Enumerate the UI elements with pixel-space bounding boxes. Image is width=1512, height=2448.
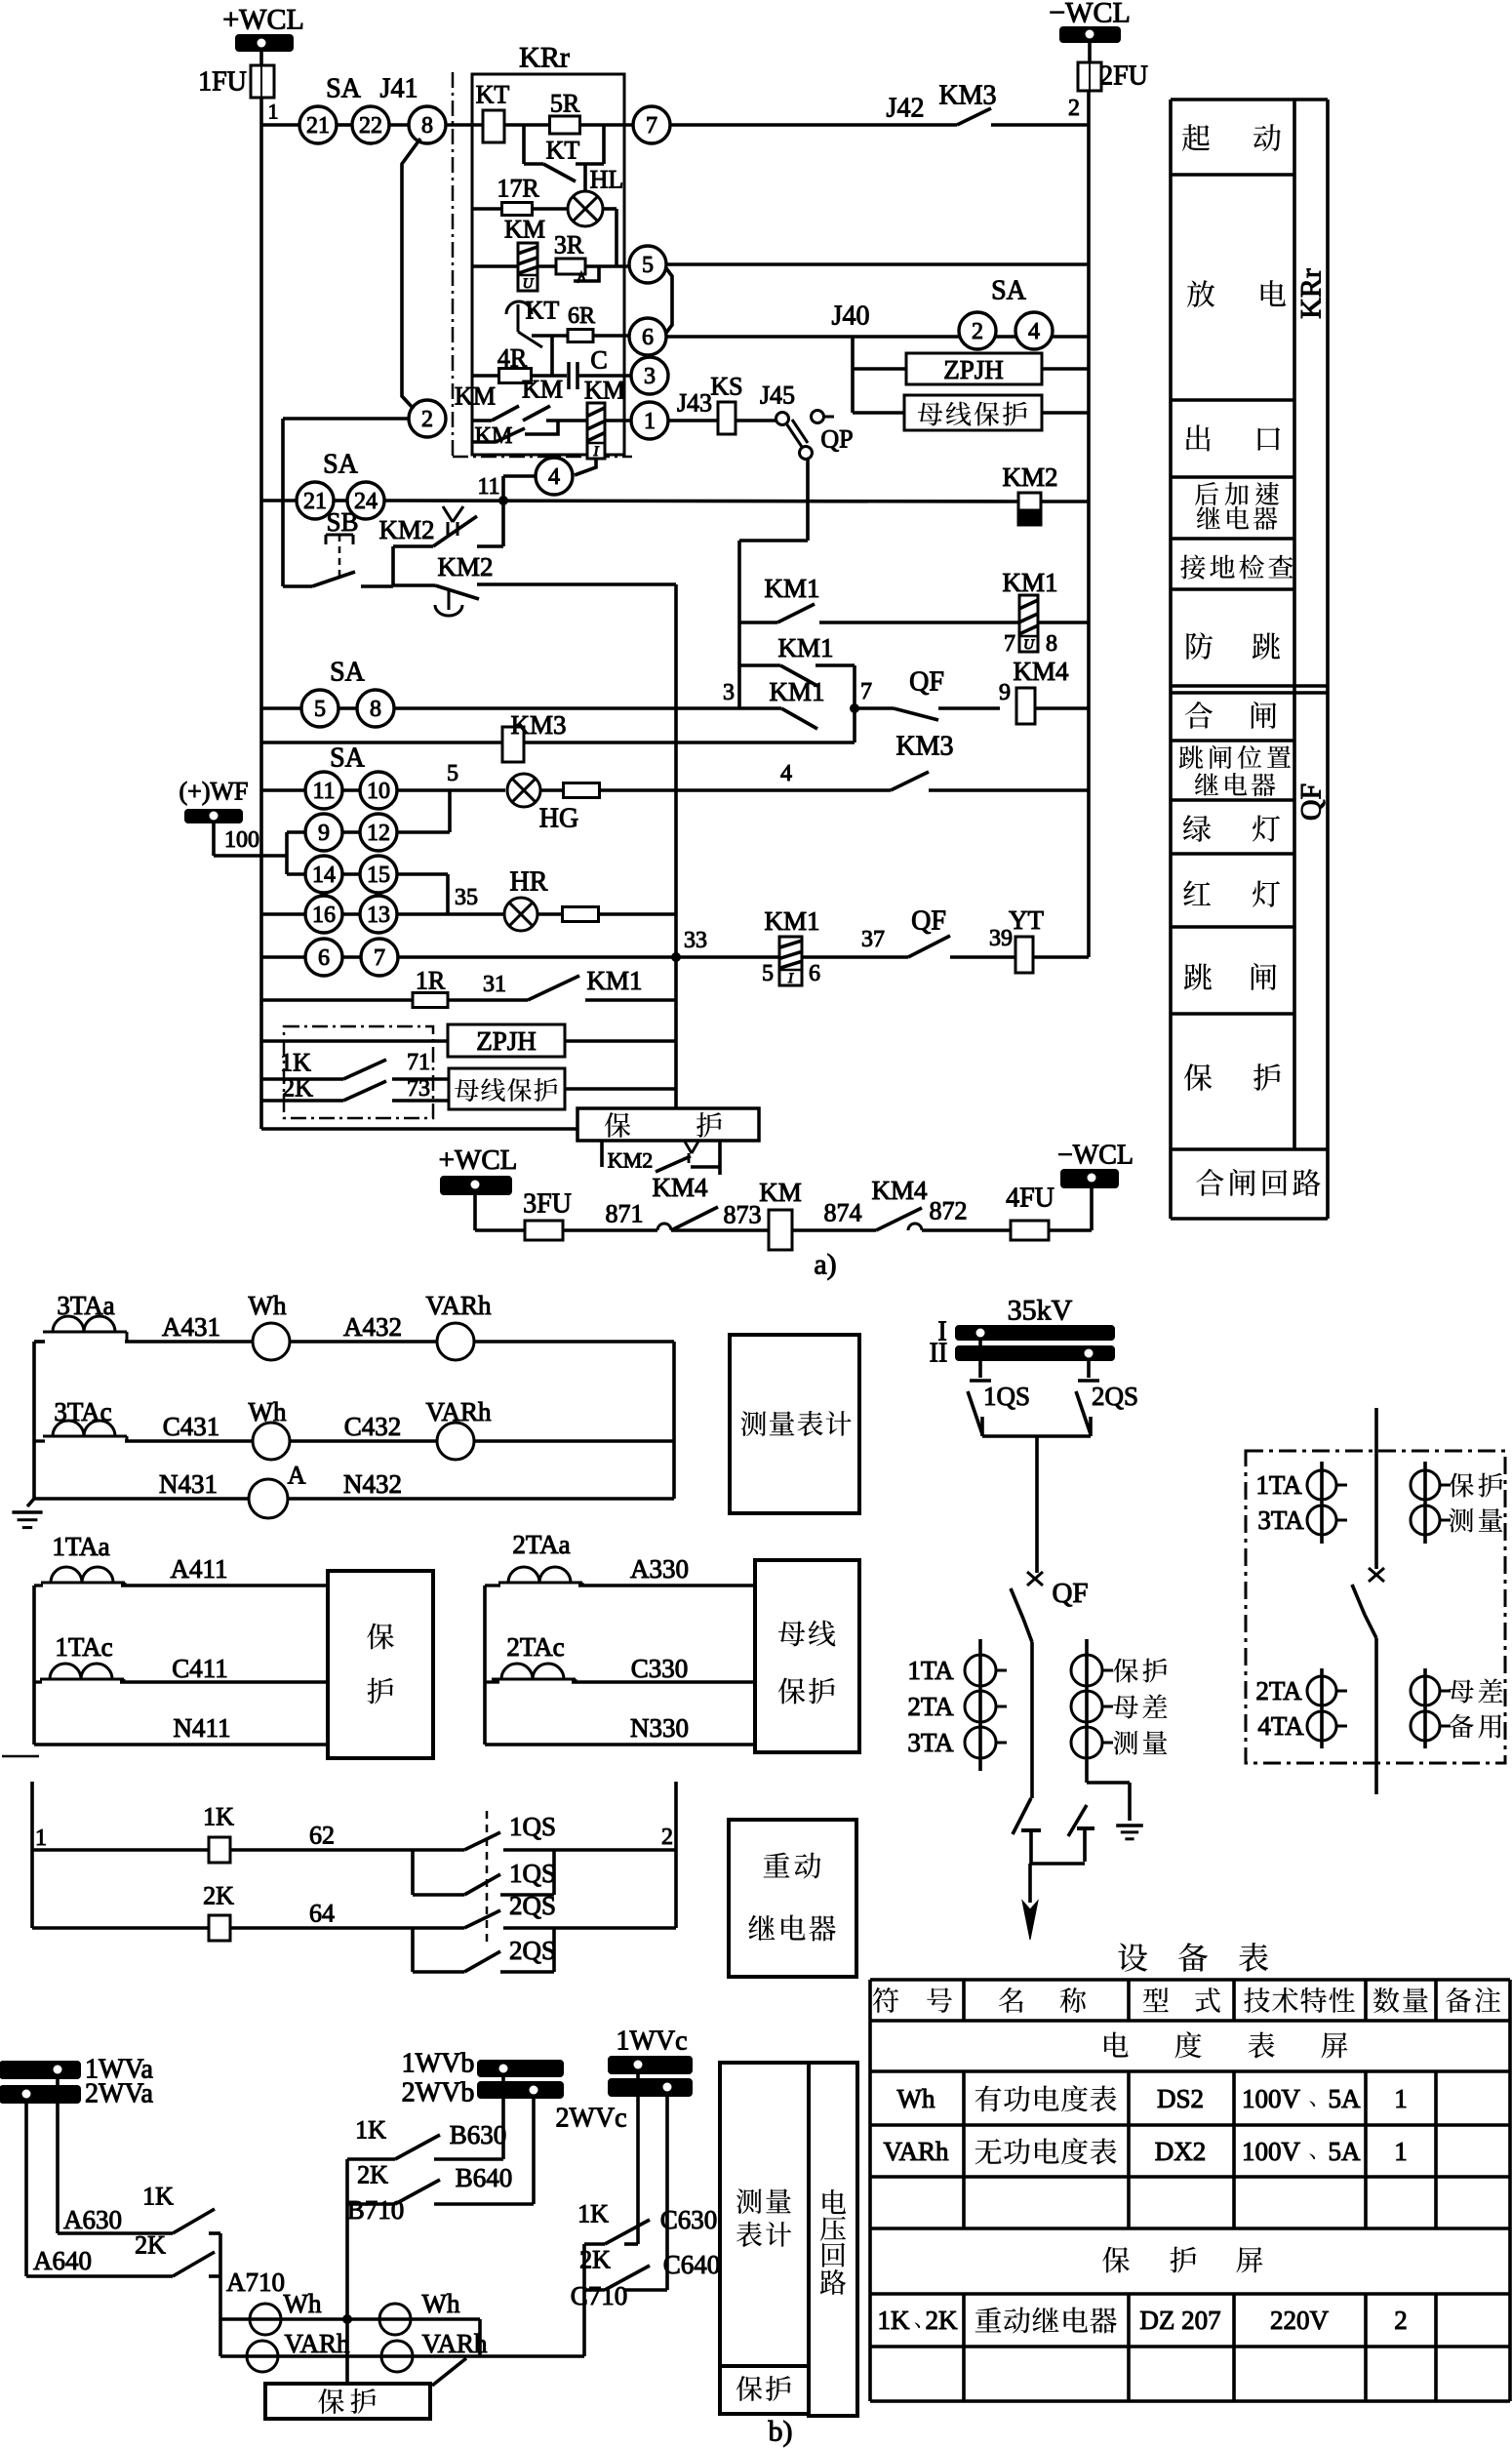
box busbar protection (b)	[755, 1560, 859, 1752]
bus 1WVa	[0, 2062, 80, 2078]
svg-text:1: 1	[35, 1826, 47, 1851]
svg-text:VARh: VARh	[421, 2329, 488, 2358]
wire to KM1 current coil	[676, 955, 779, 959]
wire A630	[56, 2078, 60, 2233]
svg-text:A640: A640	[33, 2246, 92, 2275]
svg-text:4TA: 4TA	[1257, 1711, 1304, 1741]
svg-text:KM2: KM2	[1002, 462, 1057, 492]
CT 1TA/3TA (spare)	[1320, 1462, 1324, 1544]
wire 6R row to C row	[550, 336, 554, 376]
svg-text:C: C	[590, 346, 607, 375]
contact KM2 latch lower	[393, 583, 435, 587]
device table grid	[870, 1980, 1510, 2401]
wire to -WCL	[1049, 1228, 1092, 1232]
svg-text:VARh: VARh	[284, 2329, 350, 2358]
earth switch (feeder)	[1013, 1798, 1031, 1834]
svg-text:64: 64	[309, 1900, 335, 1928]
svg-text:VARh: VARh	[883, 2137, 949, 2166]
bus 2WVb	[478, 2082, 563, 2098]
svg-text:KM4: KM4	[871, 1176, 928, 1205]
earthing branch	[1087, 1781, 1130, 1785]
svg-text:C411: C411	[172, 1654, 228, 1683]
relay coil KM1 (I) trip	[779, 937, 802, 985]
contact KM3 (green lamp row)	[891, 772, 929, 790]
bracket 9/14	[285, 832, 289, 874]
switch SA contact 6	[305, 939, 342, 976]
table row trip position relay	[1179, 745, 1204, 769]
switch SA contact 10	[360, 772, 397, 809]
table row green lamp	[1183, 815, 1211, 842]
switch SA contact 11	[305, 772, 342, 809]
svg-text:KT: KT	[546, 137, 580, 165]
relay box busbar-protection	[904, 395, 1042, 430]
wire to ZPJH	[853, 367, 906, 371]
relay coil KM1 (U)	[1019, 595, 1038, 652]
svg-text:35kV: 35kV	[1008, 1295, 1073, 1327]
svg-text:1K: 1K	[203, 1803, 234, 1831]
svg-text:100: 100	[224, 827, 259, 853]
disconnector 2QS (single line)	[1087, 1360, 1091, 1378]
svg-text:A431: A431	[162, 1312, 220, 1342]
wire A330 row	[485, 1584, 500, 1586]
svg-text:13: 13	[367, 903, 390, 928]
feeder arrow	[1028, 1864, 1032, 1903]
device table section protection panel	[1102, 2247, 1130, 2273]
svg-text:QF: QF	[909, 667, 944, 698]
wire 15 down to 35	[446, 874, 450, 914]
switch SA contact 4	[1015, 312, 1053, 349]
wire to bus	[1042, 411, 1089, 415]
lamp HL	[568, 191, 603, 226]
bus 2WVa	[0, 2086, 80, 2103]
switch SA contact 8	[357, 690, 394, 727]
contact 2QS aux	[411, 1928, 415, 1972]
contact 1QS aux	[411, 1850, 415, 1895]
svg-text:7: 7	[374, 945, 385, 971]
contact KM1 parallel upper	[740, 663, 780, 667]
svg-text:1TAa: 1TAa	[52, 1532, 109, 1561]
svg-text:6R: 6R	[568, 303, 595, 329]
relay coil KM (bottom)	[769, 1210, 792, 1250]
svg-text:KRr: KRr	[519, 42, 570, 74]
wire row1 to KM3	[670, 123, 957, 127]
left loop verticals	[32, 1342, 36, 1499]
svg-text:+WCL: +WCL	[222, 4, 304, 36]
svg-text:KM2: KM2	[437, 552, 493, 582]
CT 2TA/4TA (spare)	[1320, 1668, 1324, 1748]
svg-text:KM4: KM4	[652, 1173, 708, 1202]
svg-text:871: 871	[606, 1200, 644, 1228]
switch SA contact 5	[301, 690, 338, 727]
svg-text:4: 4	[1028, 319, 1040, 344]
resistor (HR)	[537, 912, 562, 916]
wire	[473, 1194, 477, 1230]
svg-text:KM3: KM3	[510, 710, 566, 740]
svg-text:2K: 2K	[357, 2161, 388, 2189]
wire to ZPJH 2	[261, 1039, 448, 1043]
relay 2K	[32, 1926, 209, 1930]
svg-text:KM: KM	[522, 376, 563, 404]
wire N330 row	[485, 1743, 755, 1746]
bus -WCL (bottom)	[1061, 1170, 1118, 1187]
fuse 3FU	[525, 1221, 563, 1240]
svg-text:Wh: Wh	[249, 1291, 287, 1320]
wire C330 row	[485, 1680, 499, 1683]
svg-text:11: 11	[312, 779, 335, 804]
svg-text:1FU: 1FU	[198, 67, 247, 98]
relay coil KM4	[1016, 688, 1035, 724]
contact 1QS main	[464, 1832, 500, 1850]
switch SA contact 9	[287, 830, 305, 834]
svg-text:7: 7	[860, 679, 872, 704]
box voltage circuit column	[809, 2063, 857, 2416]
breaker (spare, single line)	[1369, 1568, 1384, 1582]
svg-text:71: 71	[407, 1050, 430, 1075]
ground (measuring loop)	[27, 1499, 34, 1506]
svg-text:A710: A710	[226, 2267, 285, 2297]
svg-text:1: 1	[1394, 2084, 1408, 2113]
panel boundary mark	[2, 1755, 39, 1758]
svg-text:N330: N330	[630, 1713, 689, 1743]
left bus wire	[259, 98, 263, 1129]
wire SA6/7 row	[261, 955, 305, 959]
svg-text:21: 21	[303, 489, 327, 514]
contact KT time-delay	[506, 301, 532, 314]
wire 3R tap loop	[574, 267, 599, 281]
svg-text:U: U	[1023, 637, 1035, 653]
svg-text:8: 8	[421, 113, 433, 139]
svg-text:1K: 1K	[142, 2183, 174, 2211]
svg-text:1WVc: 1WVc	[616, 2027, 687, 2057]
svg-text:KM1: KM1	[764, 906, 819, 936]
svg-text:II: II	[930, 1339, 948, 1369]
svg-text:SA: SA	[323, 450, 359, 480]
svg-text:2: 2	[972, 319, 983, 344]
wire terminal 8 down to terminal 2	[402, 139, 420, 409]
svg-text:9: 9	[318, 821, 330, 846]
wire coil to terminal 1	[605, 419, 631, 422]
relay KT coil	[483, 110, 504, 142]
svg-text:HR: HR	[510, 867, 548, 898]
contact KM3 (J42 row)	[957, 108, 991, 125]
bus +WCL (bottom)	[441, 1177, 511, 1194]
relay box ZPJH 2	[448, 1024, 565, 1057]
svg-text:C640: C640	[663, 2250, 721, 2279]
svg-text:+WCL: +WCL	[439, 1144, 518, 1176]
svg-text:8: 8	[1046, 631, 1057, 657]
svg-text:8: 8	[370, 697, 381, 722]
svg-text:KM1: KM1	[769, 677, 824, 706]
svg-text:2QS: 2QS	[509, 1936, 556, 1965]
svg-text:872: 872	[930, 1197, 968, 1225]
wire HL to 3R row	[603, 207, 617, 211]
svg-text:2K: 2K	[926, 2306, 959, 2335]
svg-text:KM3: KM3	[938, 81, 996, 111]
right loop vertical	[672, 1342, 676, 1499]
svg-text:4R: 4R	[497, 344, 528, 373]
CT group protection/busdiff/measure	[1085, 1639, 1089, 1783]
wire join earth switches	[1029, 1856, 1033, 1864]
svg-text:11: 11	[477, 474, 499, 500]
svg-text:J40: J40	[832, 301, 870, 332]
svg-text:35: 35	[455, 885, 478, 910]
svg-text:N432: N432	[343, 1469, 402, 1499]
contact 2K (A640)	[173, 2252, 215, 2276]
CT protection/measure (spare)	[1423, 1462, 1427, 1544]
svg-text:4FU: 4FU	[1006, 1184, 1054, 1214]
wire QP down	[806, 459, 810, 541]
wire C411 row	[34, 1680, 42, 1683]
terminal 7	[633, 106, 670, 143]
svg-text:6: 6	[318, 945, 330, 971]
svg-text:873: 873	[724, 1201, 762, 1229]
contact 2K (C640)	[584, 2288, 605, 2292]
svg-text:5A: 5A	[1329, 2084, 1362, 2113]
svg-text:YT: YT	[1009, 905, 1044, 935]
svg-text:2TAa: 2TAa	[512, 1530, 570, 1559]
svg-text:1R: 1R	[416, 967, 446, 995]
wire A640	[24, 2103, 28, 2276]
capacitor C	[567, 362, 571, 389]
earth switch (TA strand)	[1068, 1805, 1087, 1836]
svg-text:100V: 100V	[1242, 2137, 1301, 2166]
svg-text:KM2: KM2	[608, 1148, 653, 1173]
svg-text:KT: KT	[526, 297, 560, 325]
wire A431 row	[34, 1340, 45, 1344]
wire join QS	[982, 1434, 1091, 1438]
svg-text:4: 4	[548, 464, 560, 490]
svg-text:1: 1	[268, 100, 279, 124]
svg-text:22: 22	[359, 113, 382, 139]
switch SA contact 13	[360, 896, 397, 933]
svg-text:15: 15	[367, 863, 390, 888]
switch SA contact 21 (lower)	[297, 482, 334, 519]
svg-text:5A: 5A	[1329, 2137, 1362, 2166]
svg-text:KM: KM	[759, 1178, 802, 1207]
function table frame	[1171, 100, 1328, 1219]
contact SB	[283, 584, 312, 588]
svg-text:N431: N431	[159, 1469, 218, 1499]
svg-text:KM3: KM3	[895, 732, 953, 762]
link terminals 5-6	[666, 268, 672, 333]
meter Wh 2 (voltage)	[379, 2304, 411, 2335]
wire Wh row (voltage)	[220, 2317, 480, 2321]
wire N411 row	[34, 1743, 328, 1746]
switch SA contact 14	[287, 872, 305, 876]
wire C630	[636, 2073, 640, 2244]
svg-text:QF: QF	[911, 906, 946, 937]
svg-text:7: 7	[646, 113, 657, 139]
table row exit (chu kou)	[1186, 424, 1211, 451]
svg-text:3R: 3R	[554, 231, 584, 260]
spare CT dash-dot box	[1246, 1451, 1505, 1763]
svg-text:5: 5	[314, 697, 326, 722]
svg-text:QF: QF	[1295, 783, 1328, 821]
svg-text:KRr: KRr	[1295, 268, 1328, 319]
svg-text:SA: SA	[326, 74, 362, 104]
svg-text:5: 5	[762, 961, 774, 986]
svg-text:VARh: VARh	[425, 1291, 492, 1320]
svg-text:6: 6	[642, 325, 654, 350]
resistor 4R	[499, 369, 532, 383]
wire terminal 1 to KS	[668, 419, 718, 422]
relay box ZPJH	[906, 353, 1042, 384]
wire 4R row	[472, 374, 499, 378]
svg-text:2: 2	[1068, 96, 1080, 121]
contact 2K (B640)	[347, 2202, 395, 2206]
contact KM4 (874-872)	[876, 1208, 922, 1230]
fuse 1FU	[251, 65, 274, 98]
switch SA contact 7	[361, 939, 398, 976]
left loop vertical 2TA	[483, 1585, 487, 1745]
meter VARh 2 (voltage)	[381, 2341, 413, 2372]
bottom rail wire	[261, 1127, 577, 1131]
svg-text:KS: KS	[710, 373, 742, 401]
box measuring instruments (voltage circuit)	[720, 2063, 809, 2414]
wire down to SA21/24 row and SB	[281, 419, 285, 586]
device table section meters panel	[1104, 2032, 1129, 2058]
terminal 2	[409, 400, 446, 437]
device table title	[1118, 1944, 1147, 1972]
box protection (voltage)	[265, 2384, 430, 2419]
svg-text:A330: A330	[630, 1554, 689, 1584]
table row trip (tiao zha)	[1184, 964, 1212, 990]
wire 11 terminal 4 to row	[503, 474, 536, 478]
wire C640	[665, 2096, 669, 2290]
lamp HG	[507, 774, 540, 807]
svg-text:1: 1	[644, 409, 656, 434]
contact KM2 latch upper	[501, 501, 505, 546]
svg-text:SA: SA	[991, 276, 1027, 306]
wire SA5/8 row	[261, 706, 301, 710]
svg-text:C431: C431	[163, 1412, 220, 1441]
svg-text:J42: J42	[887, 94, 925, 124]
svg-text:4: 4	[780, 761, 792, 786]
resistor 1R	[413, 993, 448, 1008]
svg-text:1K: 1K	[878, 2306, 911, 2335]
wire	[334, 499, 347, 502]
wire 5 node down	[448, 790, 452, 832]
contact KM upper pair	[472, 419, 492, 422]
svg-text:16: 16	[312, 903, 336, 928]
contact 1K (C630)	[584, 2242, 605, 2246]
svg-text:b): b)	[769, 2416, 793, 2448]
CT group 1TA/2TA/3TA	[978, 1639, 982, 1771]
svg-text:3TA: 3TA	[1257, 1505, 1304, 1535]
svg-text:QF: QF	[1052, 1578, 1088, 1609]
wire C to terminal 3	[577, 374, 631, 378]
wire terminal 5 row	[666, 262, 1089, 266]
table row closing circuit	[1196, 1169, 1223, 1196]
meter Wh 1 (voltage)	[250, 2304, 281, 2335]
svg-text:7: 7	[1004, 631, 1015, 657]
wire B640	[532, 2098, 536, 2204]
box repeat relay	[729, 1820, 856, 1977]
test link dash-dot box	[284, 1026, 433, 1118]
contact KM2 (protection exit)	[600, 1141, 604, 1167]
svg-text:KM: KM	[584, 377, 625, 405]
terminal 5	[629, 246, 666, 283]
svg-text:B710: B710	[347, 2195, 405, 2225]
breaker QF (single line)	[1027, 1572, 1043, 1585]
junction SA21/24 row	[261, 499, 297, 502]
wire terminal 6 row to SA	[666, 335, 959, 339]
svg-text:17R: 17R	[497, 175, 539, 203]
svg-text:220V: 220V	[1270, 2306, 1330, 2335]
svg-text:9: 9	[999, 680, 1011, 705]
relay coil KM (U)	[518, 243, 537, 291]
svg-text:KM1: KM1	[777, 633, 833, 662]
svg-text:KM: KM	[455, 382, 496, 411]
wire 871	[563, 1228, 657, 1232]
disconnector 1QS (single line)	[978, 1340, 982, 1378]
svg-text:2: 2	[1394, 2306, 1408, 2335]
contact KM1 (row 638)	[739, 621, 777, 624]
switch SA contact 12	[360, 814, 397, 851]
svg-text:1WVb: 1WVb	[402, 2049, 475, 2079]
svg-text:5: 5	[642, 253, 654, 278]
resistor 6R	[532, 334, 569, 338]
svg-text:KM: KM	[504, 216, 545, 244]
wire VARh row (voltage)	[220, 2354, 584, 2358]
wire KM coil row	[472, 264, 518, 268]
svg-text:2K: 2K	[203, 1882, 234, 1910]
wire coil bottom to terminal 4	[575, 459, 596, 475]
svg-text:KM: KM	[475, 423, 513, 449]
right bus wire	[1087, 91, 1091, 957]
switch SA contact 2	[959, 312, 996, 349]
left loop vertical 1TA	[32, 1585, 36, 1745]
svg-text:2WVc: 2WVc	[555, 2104, 626, 2134]
svg-text:1K: 1K	[577, 2200, 609, 2228]
svg-text:J41: J41	[380, 74, 418, 104]
switch SA contact 21	[299, 106, 337, 143]
bus -WCL (top)	[1060, 27, 1120, 42]
switch SA contact 15	[360, 856, 397, 893]
plug QP	[776, 413, 789, 425]
relay box protection	[577, 1108, 759, 1141]
relay KS	[718, 402, 736, 434]
svg-text:21: 21	[306, 113, 330, 139]
svg-text:73: 73	[407, 1076, 430, 1102]
wire 874	[792, 1228, 876, 1232]
terminal 1	[631, 402, 668, 439]
svg-text:A411: A411	[171, 1554, 228, 1584]
svg-text:KM1: KM1	[1002, 568, 1057, 597]
resistor 5R	[550, 116, 580, 134]
resistor 17R	[502, 203, 533, 216]
connector J41 contact 22	[352, 106, 389, 143]
spare feeder line	[1374, 1408, 1378, 1569]
svg-text:2K: 2K	[282, 1074, 313, 1103]
svg-text:6: 6	[809, 961, 820, 986]
svg-text:2K: 2K	[135, 2231, 166, 2260]
svg-text:1QS: 1QS	[983, 1382, 1030, 1411]
CT busdiff/spare	[1423, 1668, 1427, 1748]
svg-text:KT: KT	[476, 81, 510, 109]
bus +WCL (top)	[236, 35, 293, 51]
wire A710	[219, 2233, 222, 2356]
svg-text:ZPJH: ZPJH	[943, 355, 1004, 384]
table row closing (he zha)	[1185, 702, 1213, 729]
wire SA16/13 row	[261, 912, 305, 916]
svg-text:−WCL: −WCL	[1049, 0, 1131, 29]
wire 37	[802, 955, 908, 959]
svg-text:B630: B630	[450, 2120, 507, 2149]
svg-text:10: 10	[367, 779, 390, 804]
svg-text:B640: B640	[456, 2163, 513, 2192]
svg-text:2WVa: 2WVa	[85, 2079, 154, 2109]
